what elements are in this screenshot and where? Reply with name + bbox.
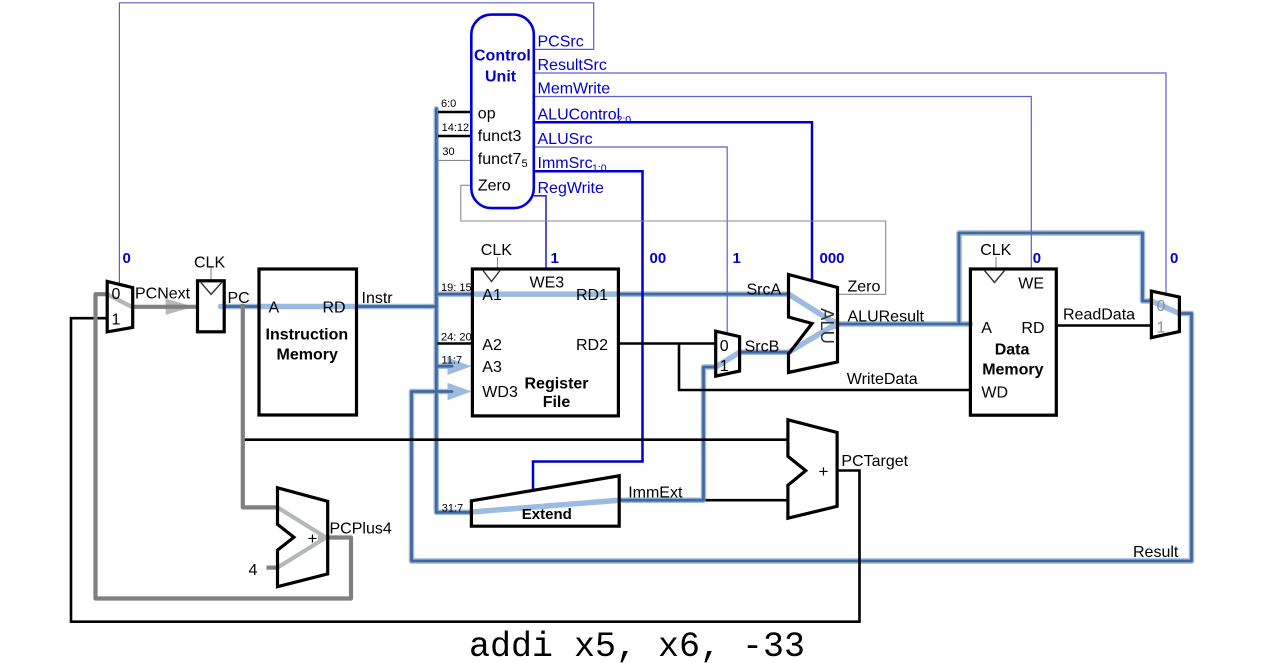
svg-text:ResultSrc: ResultSrc	[538, 57, 607, 74]
svg-text:ALU: ALU	[817, 308, 838, 344]
svg-text:Zero: Zero	[848, 279, 881, 296]
wire: CLK stub Data Memory	[995, 257, 997, 269]
svg-text:31:7: 31:7	[442, 503, 463, 515]
svg-text:CLK: CLK	[194, 255, 225, 272]
svg-text:RD: RD	[1021, 320, 1044, 337]
wire highlight: RD1 to ALU SrcA	[618, 291, 788, 297]
wire: A3 tap from bus	[436, 365, 452, 368]
svg-text:Data: Data	[995, 342, 1030, 359]
wire highlight: ImmExt up to SrcB mux input 1	[619, 367, 716, 500]
svg-text:2:0: 2:0	[617, 114, 632, 126]
svg-text:RD1: RD1	[576, 287, 608, 304]
svg-text:Memory: Memory	[277, 347, 338, 364]
PC register clock triangle	[201, 283, 222, 295]
wire highlight: PC to Instruction Memory A through-box band	[221, 304, 358, 310]
wire: PC tap to PCTarget adder top input (black)	[243, 438, 788, 441]
wire: CLK stub PC register	[210, 266, 212, 281]
wire highlight: ALU internal slants	[789, 294, 837, 352]
wire: instruction bus vertical into Extend input 31:7	[436, 109, 472, 512]
wire: A1 tap from bus	[436, 293, 472, 296]
wire: constant 4 stub into PCPlus4 adder (gray)	[267, 565, 278, 569]
wire: Result from mux down and left to WD3	[412, 314, 1192, 562]
adder PCPlus4	[278, 488, 328, 587]
svg-text:ReadData: ReadData	[1063, 307, 1135, 324]
svg-text:PCSrc: PCSrc	[538, 33, 584, 50]
svg-text:00: 00	[650, 250, 667, 267]
wire highlight: Instr band from IM RD to instruction bus	[357, 304, 437, 310]
svg-text:PCNext: PCNext	[135, 285, 191, 302]
svg-text:A: A	[981, 320, 992, 337]
extend unit	[471, 476, 619, 526]
svg-text:ALUControl: ALUControl	[538, 106, 621, 123]
svg-text:Instr: Instr	[362, 290, 394, 307]
svg-text:0: 0	[720, 338, 729, 355]
svg-text:0: 0	[112, 286, 121, 303]
svg-text:RegWrite: RegWrite	[538, 180, 604, 197]
svg-text:ALUResult: ALUResult	[848, 309, 925, 326]
mux PCNext (PCSrc mux)	[107, 281, 133, 332]
wire highlight: ALU output arrow	[832, 318, 846, 331]
data memory clock triangle	[985, 271, 1005, 283]
svg-text:op: op	[478, 105, 496, 122]
wire: funct7 stub 30 (thin gray)	[438, 159, 472, 161]
svg-text:19: 15: 19: 15	[441, 282, 472, 294]
svg-text:ImmSrc: ImmSrc	[538, 155, 593, 172]
wire highlight: A3 input arrow	[436, 363, 450, 369]
wire: ReadData to result mux input 1	[1056, 324, 1151, 327]
svg-text:RD2: RD2	[576, 337, 608, 354]
wire: ImmSrc control (bold blue)	[533, 171, 643, 490]
svg-text:WD3: WD3	[482, 384, 518, 401]
svg-text:6:0: 6:0	[441, 98, 456, 110]
svg-text:RD: RD	[323, 300, 346, 317]
wire: ResultSrc control (thin blue)	[534, 73, 1166, 294]
svg-text:CLK: CLK	[481, 242, 512, 259]
wire: ImmExt from Extend to SrcB mux input 1	[619, 367, 714, 500]
svg-text:ALUSrc: ALUSrc	[538, 131, 593, 148]
PC register	[198, 281, 225, 332]
svg-text:0: 0	[1033, 250, 1041, 267]
wire: Zero from ALU to Control Unit (thin gray)	[461, 185, 886, 294]
svg-text:Instruction: Instruction	[266, 327, 349, 344]
wire: RegWrite control to WE3	[534, 196, 546, 269]
wire: RD2 to SrcB mux input 0 with WriteData branch	[618, 344, 970, 391]
svg-text:PC: PC	[228, 290, 250, 307]
data memory box	[970, 269, 1056, 415]
svg-text:WD: WD	[981, 385, 1008, 402]
wire highlight: Extend internal slant	[471, 500, 619, 512]
wire: A2 tap from bus (black)	[438, 342, 473, 345]
wire: op stub 6:0	[438, 111, 472, 114]
wire: Instr from IM RD to instruction bus	[357, 305, 437, 308]
svg-text:1:0: 1:0	[592, 163, 607, 175]
svg-text:0: 0	[1170, 250, 1178, 267]
mux Result (ResultSrc mux)	[1151, 291, 1179, 338]
wire: PCNext mux output to PC register (gray)	[133, 305, 198, 309]
wire highlight: PCNext arrow (gray)	[166, 299, 194, 315]
svg-text:A1: A1	[482, 287, 502, 304]
svg-text:ImmExt: ImmExt	[628, 485, 683, 502]
svg-text:addi x5, x6, -33: addi x5, x6, -33	[469, 627, 805, 663]
wire: ImmExt branch to PCTarget adder bottom input (black)	[706, 499, 788, 502]
wire: PC to Instruction Memory A (dark core)	[226, 305, 260, 308]
svg-text:11:7: 11:7	[442, 355, 463, 367]
wire highlight: SrcB mux internal slant	[716, 352, 740, 367]
wire: PCTarget loop to PCNext mux input 1 (black)	[71, 318, 860, 622]
svg-text:0: 0	[123, 250, 131, 267]
wire: funct3 stub 14:12	[438, 135, 472, 138]
svg-text:MemWrite: MemWrite	[538, 81, 611, 98]
svg-text:funct3: funct3	[478, 128, 522, 145]
svg-text:1: 1	[1157, 320, 1166, 337]
wire: SrcB mux output to ALU	[741, 351, 789, 354]
svg-text:PCPlus4: PCPlus4	[330, 521, 392, 538]
svg-text:A2: A2	[482, 337, 502, 354]
svg-text:1: 1	[112, 312, 121, 329]
wire: PCSrc control (thin blue)	[119, 3, 593, 284]
svg-text:1: 1	[551, 250, 559, 267]
svg-text:Register: Register	[525, 376, 589, 393]
wire: ALUControl control (bold blue)	[534, 122, 812, 281]
svg-text:30: 30	[442, 146, 454, 158]
wire: CLK stub Register File	[497, 257, 499, 269]
wire highlight: result mux internal slant	[1151, 301, 1179, 314]
svg-text:A: A	[269, 300, 280, 317]
svg-text:0: 0	[1157, 298, 1166, 315]
wire highlight: SrcB mux output to ALU	[740, 349, 789, 355]
svg-text:+: +	[819, 462, 829, 481]
svg-text:+: +	[308, 529, 318, 548]
svg-text:Extend: Extend	[522, 506, 572, 523]
adder PCTarget	[788, 420, 837, 518]
wire: ALUSrc control (thin blue)	[534, 147, 727, 334]
wire: MemWrite control (thin blue)	[534, 97, 1032, 270]
op-amp style ALU	[789, 275, 838, 373]
wire highlight: PCNext mux internal slant (gray)	[107, 294, 131, 307]
register file clock triangle	[483, 271, 500, 282]
svg-text:000: 000	[820, 250, 845, 267]
svg-text:Control: Control	[474, 48, 531, 65]
svg-text:5: 5	[522, 158, 528, 170]
wire highlight: PCPlus4 adder internal slants (gray)	[278, 507, 327, 567]
svg-text:SrcA: SrcA	[747, 282, 782, 299]
svg-text:14:12: 14:12	[442, 122, 470, 134]
instruction memory box	[259, 269, 357, 415]
wire: ALUResult to Data Memory A with branch up to result mux input 0	[839, 233, 1151, 324]
wire highlight: instruction bus vertical into Extend	[436, 109, 472, 512]
wire highlight: PCPlus4 output arrow (gray)	[318, 532, 332, 544]
svg-text:funct7: funct7	[478, 151, 522, 168]
svg-text:WriteData: WriteData	[847, 371, 918, 388]
svg-text:WE3: WE3	[530, 275, 565, 292]
mux SrcB (ALUSrc mux)	[716, 331, 740, 376]
svg-text:WE: WE	[1018, 276, 1044, 293]
svg-text:PCTarget: PCTarget	[841, 453, 908, 470]
svg-text:A3: A3	[482, 359, 502, 376]
wire highlight: WD3 input arrow	[412, 389, 451, 395]
svg-text:CLK: CLK	[980, 242, 1011, 259]
wire: PCPlus4 loop to PCNext mux input 0 (gray)	[96, 294, 352, 598]
svg-text:Result: Result	[1133, 544, 1179, 561]
wire highlight: ALUResult to Data Memory A and branch loop to result mux	[838, 233, 1152, 324]
wire highlight: Result loop to WD3	[412, 314, 1192, 562]
svg-text:File: File	[543, 394, 571, 411]
svg-text:4: 4	[249, 562, 258, 579]
svg-text:Unit: Unit	[485, 69, 517, 86]
wire: PC down to PCPlus4 adder top input (gray)	[243, 304, 278, 507]
register file box	[472, 269, 618, 416]
wire highlight: A1 tap and band through Register File to RD1	[436, 291, 618, 297]
svg-text:1: 1	[720, 358, 729, 375]
wire: RD1 to ALU SrcA	[618, 293, 788, 296]
control unit rounded box	[471, 15, 534, 209]
svg-text:Memory: Memory	[982, 362, 1043, 379]
svg-text:Zero: Zero	[478, 178, 511, 195]
svg-text:1: 1	[733, 250, 741, 267]
svg-text:24: 20: 24: 20	[441, 332, 472, 344]
svg-text:SrcB: SrcB	[745, 339, 780, 356]
